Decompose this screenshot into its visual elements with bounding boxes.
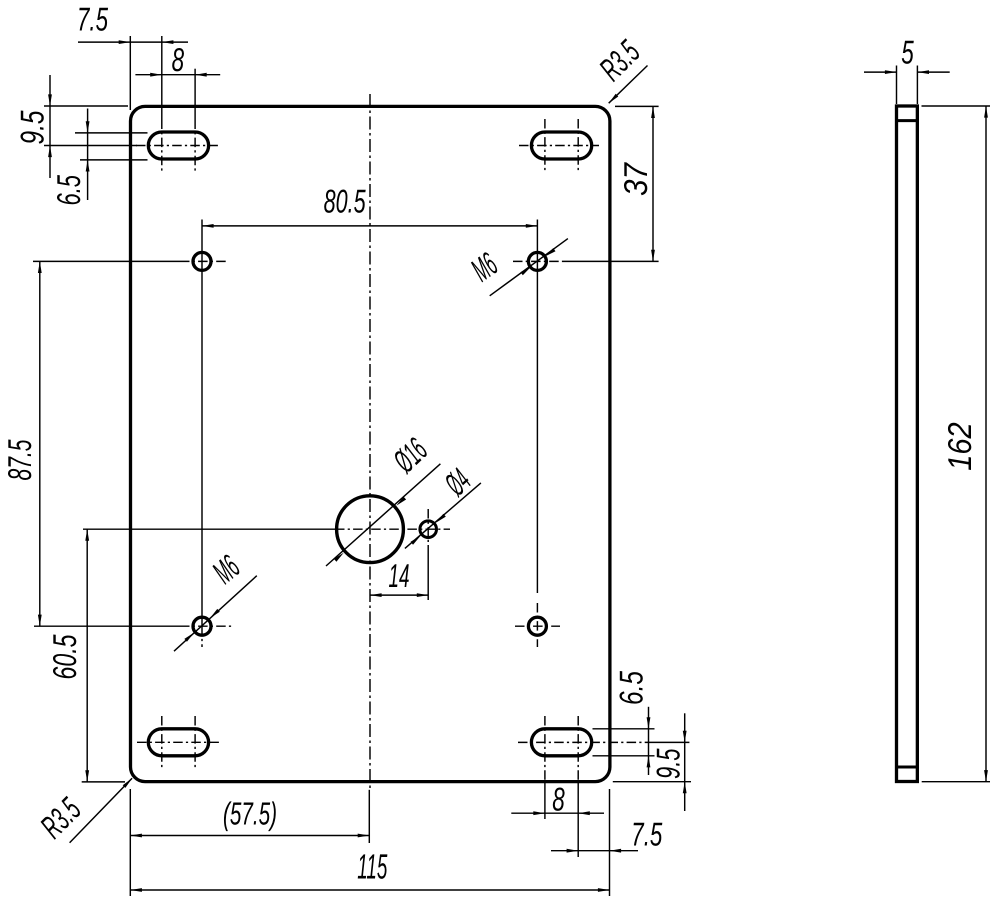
svg-text:(57.5): (57.5) [223,796,277,832]
centerline bottom-left hole horizontal [34,625,180,627]
label R3.5 top-right with leader [609,66,648,104]
plate outline front view [131,106,610,781]
centerlines slot top-left [136,145,219,147]
plate outline side view [897,106,918,782]
slot top-left [148,132,208,159]
dim 8 top-left [194,69,196,120]
extension line D4 to 14-dim [427,545,429,600]
hole D4 [420,521,437,538]
hole M6 top-right [528,252,546,270]
centerline horizontal through center holes [83,528,335,530]
dim (57.5) bottom [129,789,131,896]
slot bottom-right [531,729,591,756]
svg-text:37: 37 [617,162,654,196]
dim 5 side view [896,66,898,105]
centerline vertical plate axis [369,94,371,788]
hole D16 center [337,496,404,563]
svg-text:5: 5 [901,34,914,71]
label M6 top-right with leader [490,239,568,296]
dim 9.5 bottom-right [613,781,691,783]
dim 6.5 left [75,132,148,134]
dim 14 [370,594,428,596]
svg-text:9.5: 9.5 [650,748,687,779]
slot top-right [531,132,591,159]
svg-text:7.5: 7.5 [77,0,108,37]
svg-text:115: 115 [357,847,387,886]
svg-text:9.5: 9.5 [13,110,50,144]
hole M6 bottom-left [193,617,211,635]
dim 80.5 top holes [202,225,537,227]
svg-text:60.5: 60.5 [46,634,83,679]
label D16 with leader [326,464,440,566]
extension line left holes column [201,220,203,627]
label M6 bottom-left with leader [174,576,257,652]
extension line right holes column [536,220,538,594]
svg-text:162: 162 [941,422,978,471]
centerline top-left hole horizontal [33,260,180,262]
svg-text:6.5: 6.5 [50,175,87,206]
svg-text:87.5: 87.5 [1,439,38,480]
dim 8 bottom-right [511,812,604,814]
centerline top-right hole horizontal [513,260,562,262]
dim 115 bottom [609,789,611,896]
dim 162 side view [922,105,991,107]
svg-text:80.5: 80.5 [324,182,366,219]
side view corner tangent line bottom [897,766,918,769]
dim 9.5 left [44,105,128,107]
hole M6 top-left [193,252,211,270]
slot bottom-left [148,729,208,756]
side view corner tangent line top [897,119,918,122]
svg-text:7.5: 7.5 [631,816,662,853]
svg-text:14: 14 [389,557,410,594]
centerlines slot bottom-left [137,741,221,743]
centerline bottom-right hole horizontal [515,625,560,627]
dim 6.5 bottom-right [593,728,655,730]
svg-text:8: 8 [172,41,185,78]
dim 60.5 left [82,781,125,783]
centerline vertical D4 hole [427,509,429,545]
dim 87.5 left [39,261,41,626]
dim 7.5 bottom-right [551,850,638,852]
centerlines slot bottom-right [518,741,650,743]
hole M6 bottom-right [528,617,546,635]
svg-text:6.5: 6.5 [613,671,650,705]
dim 7.5 top-left [129,36,131,110]
dim 37 right [615,105,659,107]
label D4 with leader [405,483,481,549]
label R3.5 bottom-left with leader [70,778,133,843]
svg-text:8: 8 [552,780,565,817]
centerlines slot top-right [519,145,599,147]
